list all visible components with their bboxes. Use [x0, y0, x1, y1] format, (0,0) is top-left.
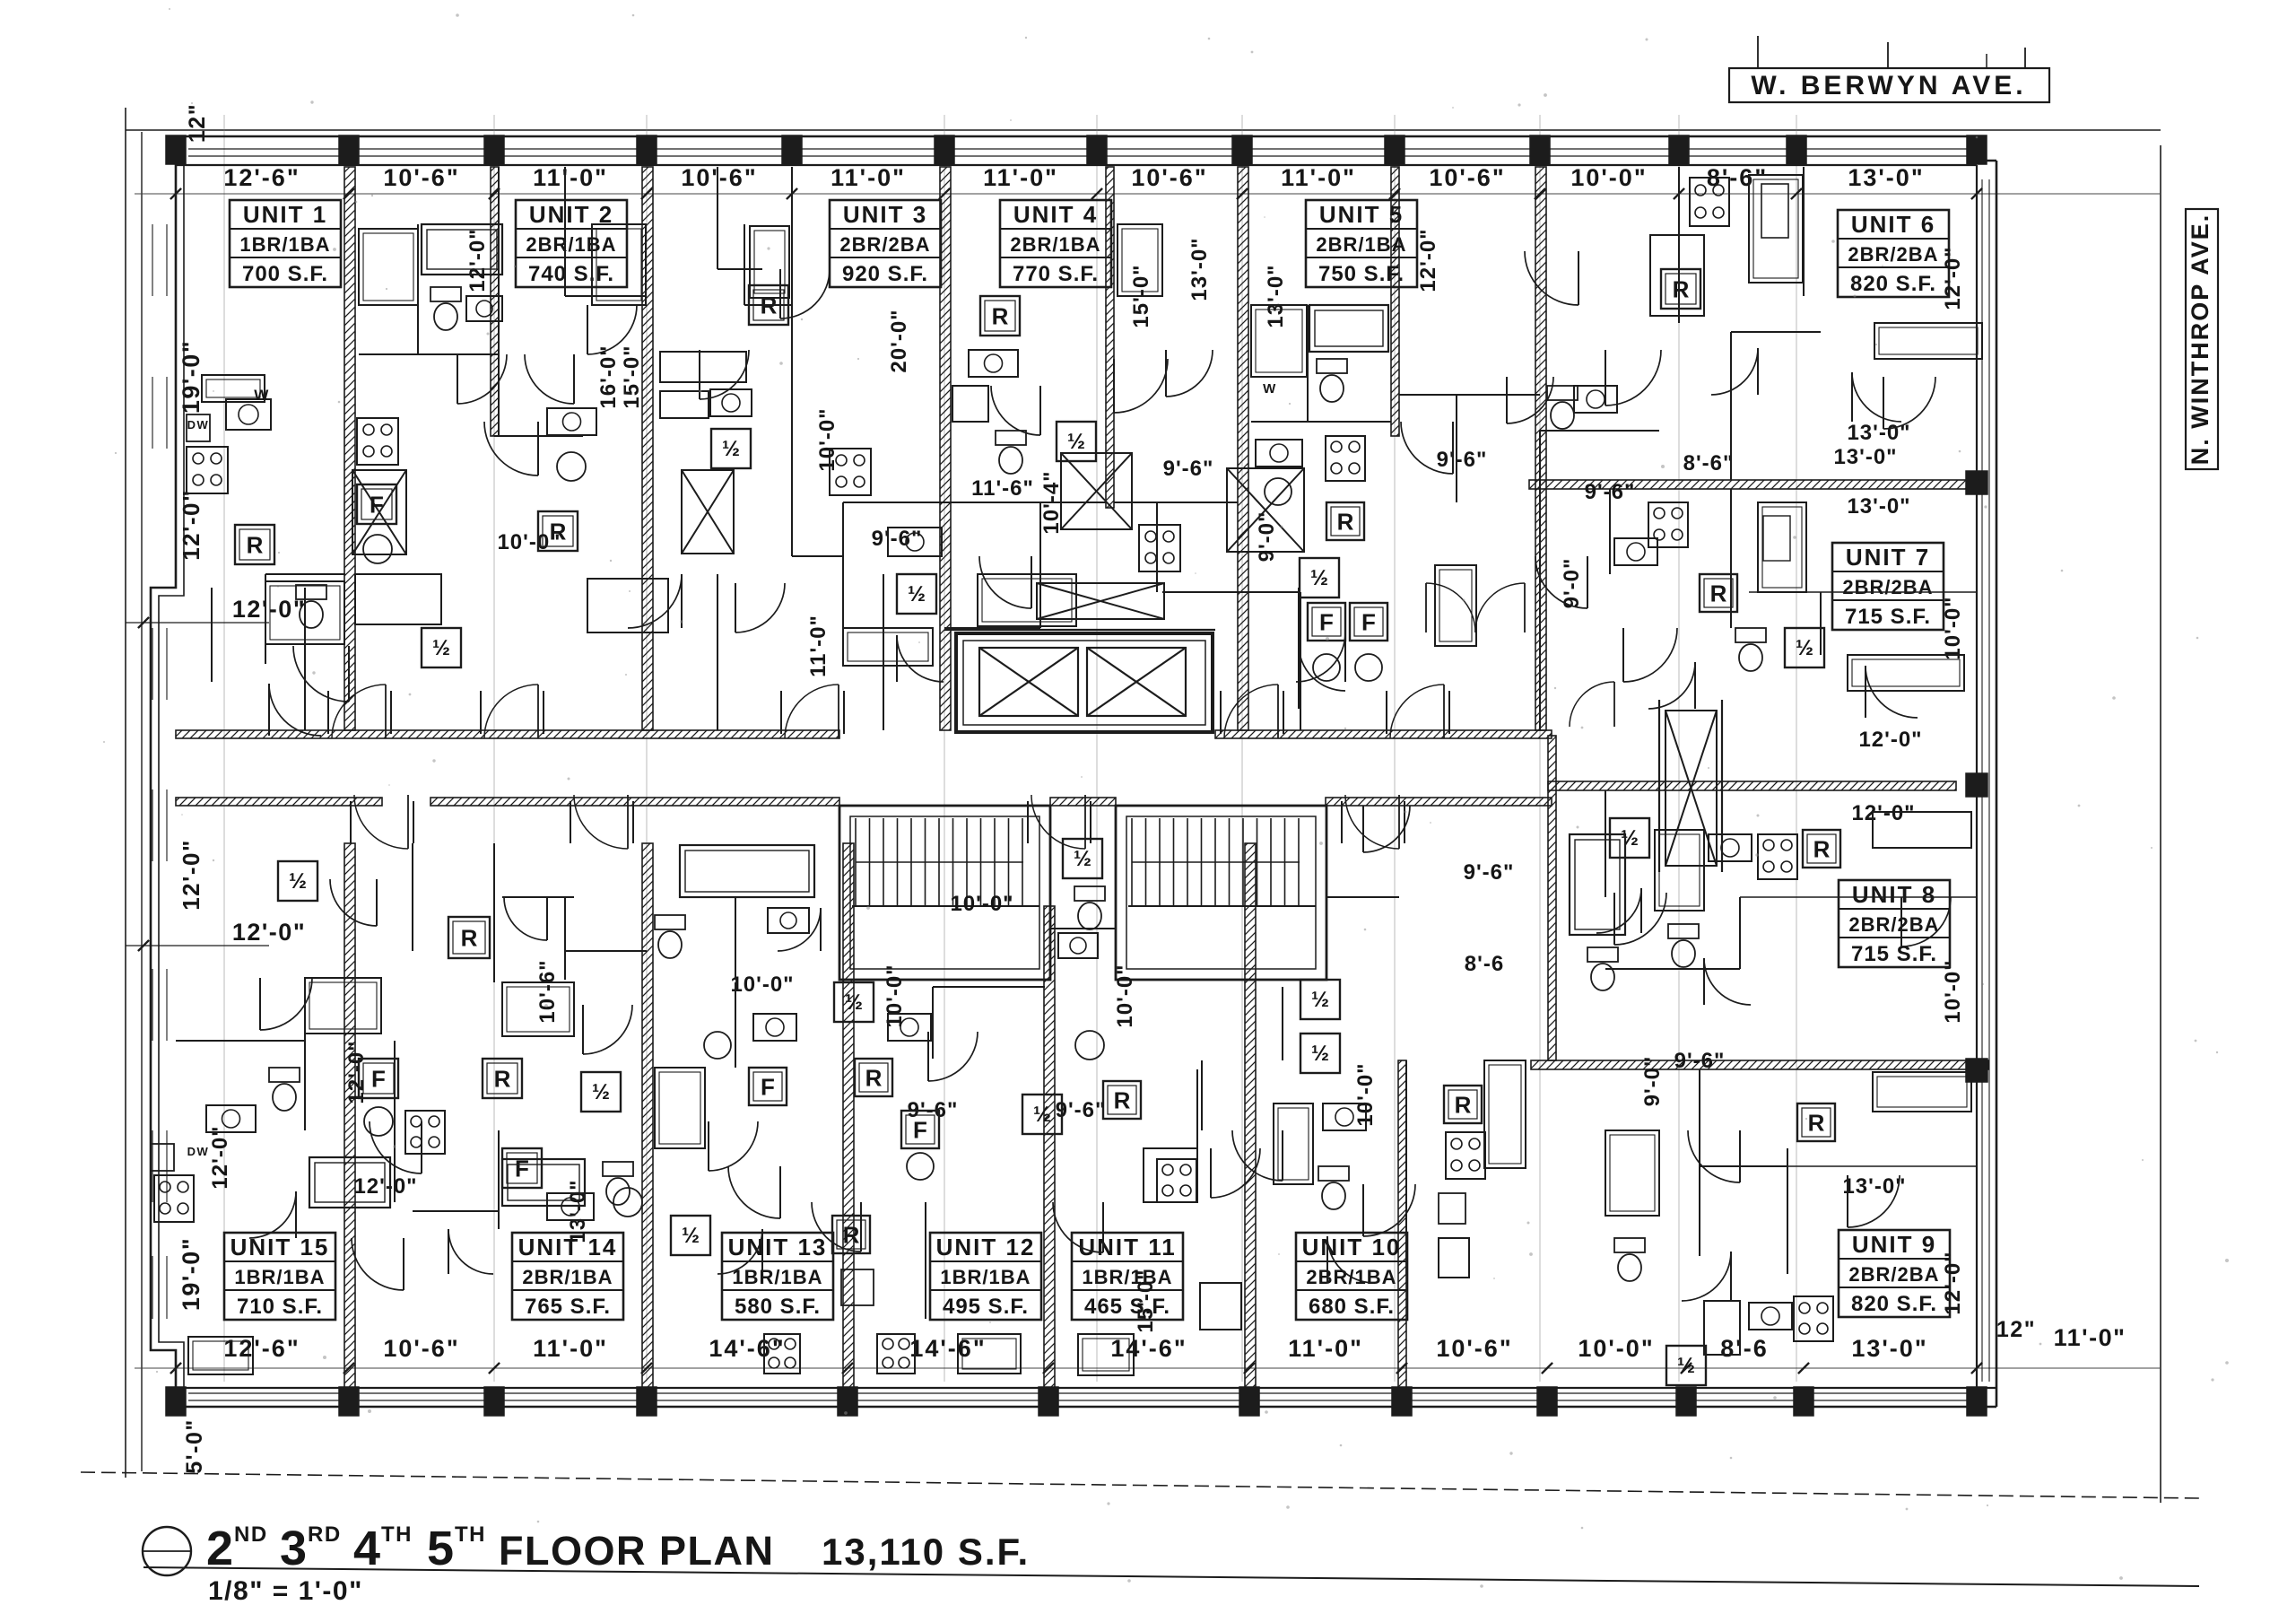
svg-text:13'-0": 13'-0" [1833, 445, 1897, 469]
svg-text:5'-0": 5'-0" [182, 1418, 207, 1473]
partition [1201, 1060, 1203, 1130]
corridor top wall w [176, 730, 839, 738]
dim tick [1396, 1363, 1407, 1374]
demising wall U1/U2 [344, 167, 355, 730]
svg-text:12'-0": 12'-0" [178, 489, 204, 561]
dim tick [939, 188, 950, 199]
svg-text:13'-0": 13'-0" [1851, 1335, 1927, 1362]
left dim line2 [126, 945, 269, 946]
svg-text:1BR/1BA: 1BR/1BA [1082, 1266, 1172, 1288]
lobby north wall [944, 629, 1215, 631]
property line right [2160, 145, 2161, 1503]
between-stairs bath [1063, 839, 1102, 878]
svg-text:580 S.F.: 580 S.F. [735, 1295, 821, 1319]
svg-text:F: F [371, 1065, 386, 1092]
dim tick [170, 1363, 181, 1374]
svg-text:R: R [1337, 508, 1354, 535]
u6 arc2 [1711, 348, 1758, 395]
partition [1700, 1165, 1787, 1167]
svg-text:12'-0": 12'-0" [208, 1125, 232, 1189]
svg-text:F: F [913, 1116, 927, 1143]
arc u6 [1852, 372, 1901, 422]
corridor bottom wall mid [1050, 798, 1116, 806]
svg-text:F: F [1319, 608, 1334, 635]
svg-text:UNIT 5: UNIT 5 [1319, 201, 1404, 228]
partition [1740, 896, 1977, 898]
column [1530, 135, 1550, 164]
svg-text:12'-0": 12'-0" [1851, 801, 1915, 825]
svg-text:F: F [370, 491, 384, 518]
right exterior wall outer [1996, 161, 1998, 1407]
svg-text:680 S.F.: 680 S.F. [1309, 1295, 1395, 1319]
svg-text:½: ½ [1621, 826, 1639, 850]
u3 living closet [843, 628, 933, 666]
svg-text:R: R [1114, 1086, 1131, 1113]
demising wall U14/U13 [642, 843, 653, 1388]
left wall window [152, 1130, 153, 1202]
stair east [1116, 806, 1326, 980]
left wall window [152, 628, 153, 700]
column [1087, 135, 1107, 164]
svg-text:2BR/2BA: 2BR/2BA [1848, 1263, 1939, 1286]
partition [1116, 980, 1283, 987]
arc u5 [1296, 632, 1345, 682]
svg-text:495 S.F.: 495 S.F. [943, 1295, 1029, 1319]
partition [1300, 592, 1301, 730]
grid line [1539, 115, 1541, 1382]
svg-text:9'-6": 9'-6" [1674, 1049, 1726, 1073]
svg-text:UNIT 7: UNIT 7 [1846, 544, 1930, 571]
partition [933, 986, 1045, 988]
column b [1239, 1387, 1259, 1416]
bottom exterior wall outer [176, 1406, 1996, 1409]
partition [1456, 395, 1457, 502]
svg-text:11'-0": 11'-0" [983, 164, 1058, 191]
demising wall U4/U5 [1238, 167, 1248, 730]
svg-text:R: R [1808, 1109, 1825, 1136]
svg-text:10'-0": 10'-0" [950, 892, 1013, 916]
svg-text:UNIT 12: UNIT 12 [936, 1234, 1036, 1260]
column b [1794, 1387, 1813, 1416]
unit 12 interior [901, 1111, 939, 1148]
svg-text:2BR/1BA: 2BR/1BA [1316, 233, 1406, 256]
unit 3 label box [830, 200, 941, 287]
svg-text:11'-0": 11'-0" [1281, 164, 1356, 191]
svg-text:UNIT 6: UNIT 6 [1851, 211, 1935, 238]
shaft U5 [1227, 468, 1304, 552]
left wall window [152, 377, 153, 449]
partition [304, 588, 306, 730]
demising wall U7/U8 [1548, 781, 1956, 790]
partition u3 bed [744, 224, 745, 305]
door jamb [780, 691, 782, 734]
unit 4 interior [969, 350, 1018, 377]
dim tick [1237, 188, 1248, 199]
svg-text:½: ½ [1033, 1103, 1051, 1127]
dim tick [1791, 188, 1802, 199]
u5 closet [1435, 565, 1476, 646]
svg-text:740 S.F.: 740 S.F. [528, 262, 614, 286]
partition [1039, 502, 1041, 628]
svg-text:R: R [1455, 1091, 1472, 1118]
column b [1039, 1387, 1058, 1416]
svg-text:10'-0": 10'-0" [1570, 164, 1647, 191]
svg-text:½: ½ [289, 869, 307, 894]
partition [1749, 591, 1977, 593]
door jamb b [570, 801, 571, 843]
svg-text:8'-6: 8'-6 [1720, 1335, 1768, 1362]
partition [1820, 592, 1822, 655]
left wall window [152, 1256, 153, 1319]
grid line [1096, 115, 1098, 1382]
shaft right wing [1665, 711, 1717, 866]
svg-text:1BR/1BA: 1BR/1BA [239, 233, 330, 256]
unit 1 interior [187, 447, 228, 493]
svg-text:11'-0": 11'-0" [831, 164, 906, 191]
door jamb [327, 691, 329, 734]
svg-text:16'-0": 16'-0" [596, 345, 621, 408]
unit 15 interior [154, 1175, 194, 1222]
svg-text:½: ½ [845, 990, 863, 1015]
column r1 [1966, 471, 1987, 494]
unit 13 label box [722, 1233, 833, 1320]
column [1669, 135, 1689, 164]
svg-text:R: R [843, 1221, 860, 1248]
partition [565, 950, 647, 952]
partition [1787, 1165, 1977, 1167]
dim tick [641, 188, 652, 199]
arc u3 [700, 350, 749, 399]
partition [176, 1040, 233, 1042]
title underline [143, 1567, 2199, 1586]
u15 mid arc [330, 879, 377, 926]
svg-text:½: ½ [1311, 988, 1329, 1012]
svg-text:15'-0": 15'-0" [620, 345, 644, 408]
svg-text:715 S.F.: 715 S.F. [1851, 942, 1937, 966]
svg-text:2BR/2BA: 2BR/2BA [1842, 576, 1933, 598]
svg-text:½: ½ [1311, 1042, 1329, 1066]
closet u4 [1118, 224, 1162, 296]
svg-text:2: 2 [206, 1522, 235, 1575]
svg-text:9'-6": 9'-6" [1163, 457, 1214, 481]
column b [838, 1387, 857, 1416]
column b [339, 1387, 359, 1416]
arc u8 [1704, 958, 1751, 1005]
property line left [125, 108, 126, 1478]
svg-text:R: R [1710, 580, 1727, 606]
partition [564, 167, 566, 296]
N Winthrop Ave label [2186, 209, 2218, 469]
svg-text:UNIT 1: UNIT 1 [243, 201, 327, 228]
partition [944, 627, 1040, 629]
unit 13 interior [749, 1068, 787, 1105]
svg-text:10'-0": 10'-0" [1941, 959, 1965, 1023]
elevator car 1 [979, 648, 1078, 716]
svg-text:920 S.F.: 920 S.F. [842, 262, 928, 286]
svg-text:12'-6": 12'-6" [223, 1335, 300, 1362]
svg-text:FLOOR PLAN: FLOOR PLAN [499, 1528, 774, 1574]
unit 11 interior [1103, 1081, 1141, 1119]
svg-text:1BR/1BA: 1BR/1BA [732, 1266, 822, 1288]
partition [791, 167, 793, 556]
grid line [1678, 115, 1680, 1382]
unit 2 interior [359, 229, 418, 305]
unit 1 label box [230, 200, 341, 287]
dim tick [1798, 1363, 1809, 1374]
svg-text:11'-0": 11'-0" [806, 615, 831, 677]
left wall window [152, 969, 153, 1041]
grid line [223, 115, 225, 1382]
svg-text:UNIT 15: UNIT 15 [230, 1234, 330, 1260]
svg-text:12'-0": 12'-0" [1941, 246, 1965, 310]
grid line [646, 115, 648, 1382]
partition [1282, 987, 1283, 1060]
elevator core [956, 633, 1213, 732]
unit 5 label box [1306, 200, 1417, 287]
svg-text:700 S.F.: 700 S.F. [242, 262, 328, 286]
grid line h [135, 193, 2161, 195]
svg-text:4: 4 [353, 1522, 382, 1575]
svg-text:9'-0": 9'-0" [1255, 511, 1279, 563]
svg-text:½: ½ [592, 1080, 610, 1104]
u10 wall stub [1326, 896, 1399, 898]
corridor top wall e [1215, 730, 1552, 738]
partition [211, 588, 213, 682]
unit 8 label box [1839, 880, 1950, 967]
column b [1967, 1387, 1987, 1416]
svg-text:2BR/1BA: 2BR/1BA [1010, 233, 1100, 256]
svg-text:20'-0": 20'-0" [887, 309, 911, 372]
demising wall U11/U10 [1245, 843, 1256, 1388]
property line bottom [81, 1472, 2199, 1498]
svg-text:10'-0": 10'-0" [730, 973, 794, 997]
svg-text:820 S.F.: 820 S.F. [1851, 1292, 1937, 1316]
svg-text:R: R [1673, 275, 1690, 302]
svg-text:RD: RD [308, 1522, 342, 1547]
svg-text:12'-0": 12'-0" [344, 1040, 369, 1103]
column b [1537, 1387, 1557, 1416]
svg-text:2BR/1BA: 2BR/1BA [522, 1266, 613, 1288]
corridor bottom wall w2 [430, 798, 839, 806]
column [1385, 135, 1405, 164]
svg-text:19'-0": 19'-0" [178, 340, 204, 414]
left wall window [152, 224, 153, 296]
bottom exterior wall inner [176, 1387, 1996, 1389]
svg-text:770 S.F.: 770 S.F. [1013, 262, 1099, 286]
svg-text:11'-6": 11'-6" [971, 476, 1034, 501]
svg-text:½: ½ [1074, 847, 1091, 871]
svg-text:10'-6": 10'-6" [681, 164, 757, 191]
unit 12 label box [930, 1233, 1041, 1320]
dim tick [489, 188, 500, 199]
unit 15 label box [224, 1233, 335, 1320]
svg-text:820 S.F.: 820 S.F. [1850, 272, 1936, 296]
svg-text:DW: DW [187, 1145, 210, 1158]
column b [637, 1387, 657, 1416]
svg-text:½: ½ [722, 437, 740, 461]
top wall window lines [188, 148, 1977, 150]
svg-text:11'-0": 11'-0" [2054, 1324, 2126, 1351]
north circle [143, 1527, 191, 1575]
u14 upper wall [502, 896, 574, 898]
svg-text:9'-6": 9'-6" [1464, 860, 1515, 885]
elevator doors [996, 730, 1058, 734]
svg-text:11'-0": 11'-0" [533, 1335, 608, 1362]
dim tick [344, 188, 354, 199]
corridor door [484, 685, 538, 738]
column [782, 135, 802, 164]
dim tick [1091, 188, 1102, 199]
dim tick [787, 188, 797, 199]
column [484, 135, 504, 164]
demising wall U15/U14 [344, 843, 355, 1388]
unit 14 interior [502, 982, 574, 1036]
column [1967, 135, 1987, 164]
demising wall U10 mid [1398, 1060, 1406, 1388]
right wall window lines [1981, 179, 1983, 1382]
unit 7 label box [1832, 543, 1944, 630]
partition [1731, 331, 1821, 333]
svg-text:13'-0": 13'-0" [1847, 421, 1910, 445]
grid line [1796, 115, 1797, 1382]
column b [1676, 1387, 1696, 1416]
left exterior wall [151, 136, 176, 1407]
svg-text:8'-6: 8'-6 [1465, 952, 1504, 976]
demising wall U5/U6 [1535, 167, 1546, 730]
partition [843, 502, 944, 503]
svg-text:12": 12" [1996, 1317, 2036, 1342]
column b [1392, 1387, 1412, 1416]
partition [932, 987, 934, 1059]
closet u3 [750, 226, 789, 298]
partition [1605, 968, 1740, 970]
svg-text:1BR/1BA: 1BR/1BA [940, 1266, 1031, 1288]
arc u14 [448, 1229, 493, 1274]
partition [1114, 502, 1238, 503]
svg-text:8'-6": 8'-6" [1683, 451, 1735, 475]
svg-text:R: R [461, 924, 478, 951]
svg-text:UNIT 10: UNIT 10 [1302, 1234, 1402, 1260]
svg-text:10'-0": 10'-0" [1941, 596, 1965, 659]
dim tick [170, 188, 181, 199]
arc u9 [1682, 1252, 1731, 1301]
partition [412, 1202, 413, 1296]
unit8 tub [1570, 834, 1625, 935]
column [339, 135, 359, 164]
grid line [493, 115, 495, 1382]
svg-text:DW: DW [187, 418, 210, 432]
svg-text:10'-6": 10'-6" [383, 164, 459, 191]
demising wall U3/U4 [940, 167, 951, 730]
left exterior wall inner [159, 165, 184, 1388]
dim tick [1971, 1363, 1982, 1374]
corridor bottom wall w1 [176, 798, 382, 806]
dim tick [1542, 1363, 1552, 1374]
door jamb [480, 691, 482, 734]
partition [717, 574, 718, 730]
partition [564, 897, 566, 980]
svg-text:R: R [247, 531, 264, 558]
svg-text:2BR/2BA: 2BR/2BA [1848, 243, 1938, 266]
svg-text:13'-0": 13'-0" [1847, 494, 1910, 519]
svg-text:750 S.F.: 750 S.F. [1318, 262, 1405, 286]
partition [394, 1041, 396, 1202]
unit13 upper bath [680, 845, 814, 897]
arc u7 [1648, 662, 1695, 709]
arc u15 [249, 1191, 296, 1238]
svg-text:10'-0": 10'-0" [1113, 964, 1137, 1027]
unit 2 label box [516, 200, 627, 287]
unit 14 label box [512, 1233, 623, 1320]
svg-text:TH: TH [381, 1522, 413, 1547]
arc u4b [1166, 350, 1213, 397]
u10 bed closet [1274, 1103, 1313, 1184]
column [166, 135, 186, 164]
stair west [839, 806, 1050, 980]
partition [1539, 431, 1541, 730]
svg-text:9'-6": 9'-6" [1437, 448, 1488, 472]
partition [735, 897, 736, 980]
dim tick [1681, 1363, 1692, 1374]
svg-text:10'-6": 10'-6" [1436, 1335, 1512, 1362]
door jamb b [1027, 801, 1029, 843]
svg-text:15'-0": 15'-0" [1134, 1269, 1158, 1332]
svg-text:UNIT 11: UNIT 11 [1078, 1234, 1176, 1260]
svg-text:3: 3 [280, 1522, 309, 1575]
svg-text:W. BERWYN AVE.: W. BERWYN AVE. [1751, 71, 2026, 100]
svg-text:½: ½ [1677, 1354, 1695, 1378]
bottom wall window lines [188, 1392, 1977, 1394]
svg-text:UNIT 8: UNIT 8 [1852, 881, 1936, 908]
svg-text:9'-0": 9'-0" [1560, 558, 1584, 609]
svg-text:12'-0": 12'-0" [1941, 1251, 1965, 1314]
dim tick [1971, 188, 1982, 199]
grid line [944, 115, 945, 1382]
partition [493, 843, 495, 982]
svg-text:12'-0": 12'-0" [353, 1174, 417, 1199]
partition [395, 1040, 499, 1042]
svg-text:2BR/2BA: 2BR/2BA [839, 233, 930, 256]
svg-text:10'-6": 10'-6" [1131, 164, 1207, 191]
dim tick [1389, 188, 1400, 199]
left wall window [152, 789, 153, 861]
arc u10 [1327, 1236, 1374, 1283]
svg-text:10'-6": 10'-6" [535, 959, 560, 1023]
unit 9 label box [1839, 1230, 1950, 1317]
svg-text:11'-0": 11'-0" [1288, 1335, 1363, 1362]
u9 bed wall [1699, 1166, 1700, 1256]
svg-text:710 S.F.: 710 S.F. [237, 1295, 323, 1319]
partition u3 bed2 [744, 304, 792, 306]
svg-text:13,110 S.F.: 13,110 S.F. [822, 1531, 1030, 1573]
column b [166, 1387, 186, 1416]
demising wall U2/U3 [642, 167, 653, 730]
svg-text:1/8" = 1'-0": 1/8" = 1'-0" [208, 1576, 363, 1605]
corridor door [1031, 795, 1085, 849]
svg-text:½: ½ [1310, 566, 1328, 590]
svg-text:9'-6": 9'-6" [872, 527, 923, 551]
svg-text:2BR/2BA: 2BR/2BA [1848, 913, 1939, 936]
grid line [1394, 115, 1396, 1382]
unit 9 interior [1797, 1103, 1835, 1141]
door jamb [1386, 691, 1387, 734]
partition [1739, 897, 1741, 969]
corridor door [1345, 795, 1399, 849]
svg-text:12'-0": 12'-0" [178, 839, 204, 911]
corridor door [574, 795, 628, 849]
unit 6 interior [1690, 178, 1729, 226]
corridor door [1390, 685, 1444, 738]
